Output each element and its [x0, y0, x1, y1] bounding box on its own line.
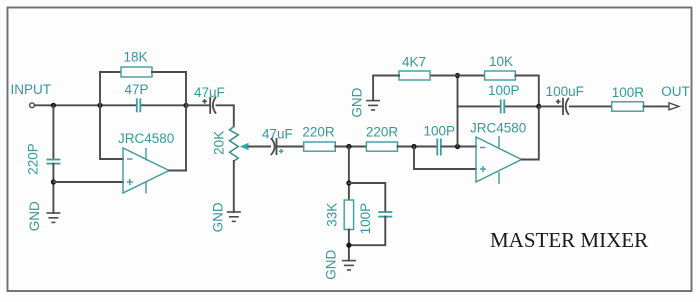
svg-text:20K: 20K: [211, 131, 226, 155]
wire out line to 100uF: [539, 105, 562, 107]
svg-text:47P: 47P: [125, 82, 149, 97]
svg-text:OUT: OUT: [661, 84, 690, 99]
svg-text:GND: GND: [324, 249, 339, 279]
wire 100P2 bottom: [349, 217, 385, 246]
ground GND4: [349, 87, 380, 117]
wire 47uF to pot top: [217, 105, 234, 126]
svg-text:47uF: 47uF: [194, 85, 225, 100]
node junction J9: [346, 243, 351, 248]
wire J6 down to plus input: [414, 147, 476, 170]
capacitor C 100P shunt: [358, 203, 392, 235]
wire opamp output: [169, 170, 186, 172]
wire pot to gnd: [233, 161, 235, 212]
resistor R 18K: [121, 50, 152, 78]
svg-text:GND: GND: [210, 202, 225, 232]
svg-text:100R: 100R: [612, 85, 645, 100]
op-amp U1 JRC4580: [118, 131, 174, 194]
op-amp U2 JRC4580: [470, 121, 526, 184]
svg-text:4K7: 4K7: [402, 55, 426, 70]
wire 100P1 row: [458, 105, 501, 107]
node junction J2: [97, 103, 102, 108]
wire 33K bottom: [348, 230, 350, 261]
svg-text:GND: GND: [27, 201, 42, 231]
wire J10 right to 10K: [458, 75, 485, 77]
svg-text:100P: 100P: [358, 203, 373, 235]
ground GND2: [210, 202, 240, 232]
capacitor C 47uF2 polarized: [262, 127, 293, 156]
ground GND3: [324, 249, 356, 279]
resistor R 220R first: [302, 124, 335, 151]
svg-text:INPUT: INPUT: [11, 82, 52, 97]
resistor R 100R: [612, 85, 645, 111]
node junction J6: [411, 144, 416, 149]
svg-text:33K: 33K: [324, 203, 339, 227]
svg-text:100P: 100P: [488, 83, 520, 98]
wire 10K right down: [515, 76, 538, 107]
wire 100P3 to opamp2 minus: [442, 146, 476, 148]
wire 4K7 to gnd: [373, 76, 399, 101]
wire 100R to out: [644, 105, 670, 107]
node junction J7: [455, 144, 460, 149]
node junction J4: [51, 179, 56, 184]
wire shunt J5 down: [348, 147, 350, 201]
svg-text:100P: 100P: [424, 124, 456, 139]
wire 47P right to node: [141, 104, 186, 106]
capacitor C 100uF polarized: [546, 84, 584, 115]
wire 47uF2 to 220R: [277, 146, 303, 148]
svg-text:47uF: 47uF: [262, 127, 293, 142]
potentiometer R 20K: [211, 127, 248, 162]
wire cap to gnd: [52, 164, 54, 213]
wire branch to 100P2: [349, 183, 385, 212]
resistor R 220R second: [366, 124, 399, 151]
wire to opamp plus: [53, 181, 123, 183]
wire 220R to 220R: [335, 146, 366, 148]
node junction J5: [346, 144, 351, 149]
svg-text:JRC4580: JRC4580: [470, 121, 526, 136]
wire node to 47uF: [186, 104, 210, 106]
svg-text:GND: GND: [349, 87, 364, 117]
wire J10 left to 4K7: [430, 75, 458, 77]
wire feedback top loop: [100, 72, 121, 105]
capacitor C 47uF polarized: [194, 85, 225, 114]
node junction J11: [536, 104, 541, 109]
resistor R 10K: [485, 54, 516, 80]
capacitor C 47P: [125, 82, 149, 112]
capacitor C 220P: [26, 143, 61, 175]
node junction J10: [455, 73, 460, 78]
svg-text:MASTER MIXER: MASTER MIXER: [490, 228, 648, 252]
svg-text:220P: 220P: [26, 143, 41, 175]
node OUT terminal: [661, 84, 690, 110]
capacitor C 100P feedback: [488, 83, 520, 114]
wire 18K to right vertical: [152, 72, 186, 171]
wire to opamp minus: [100, 105, 123, 159]
svg-text:220R: 220R: [366, 124, 399, 139]
wire feedback vertical op2: [457, 76, 459, 147]
node INPUT terminal: [11, 82, 52, 108]
resistor R 4K7: [399, 55, 430, 81]
wire 100uF to 100R: [570, 105, 612, 107]
svg-text:18K: 18K: [124, 50, 148, 65]
node junction J3: [183, 103, 188, 108]
svg-text:100uF: 100uF: [546, 84, 584, 99]
svg-text:JRC4580: JRC4580: [118, 131, 174, 146]
wire input shunt down: [52, 105, 54, 159]
ground GND1: [27, 201, 60, 231]
wire 220R2 to 100P3: [398, 146, 437, 148]
node junction J8: [346, 180, 351, 185]
resistor R 33K: [324, 200, 353, 230]
wire opamp2 output: [522, 106, 539, 159]
svg-text:10K: 10K: [489, 54, 513, 69]
wire input main horizontal: [35, 104, 136, 106]
capacitor C 100P series: [424, 124, 456, 156]
wire wiper to 47uF2: [249, 146, 271, 148]
node junction J1: [51, 103, 56, 108]
svg-text:220R: 220R: [302, 124, 335, 139]
